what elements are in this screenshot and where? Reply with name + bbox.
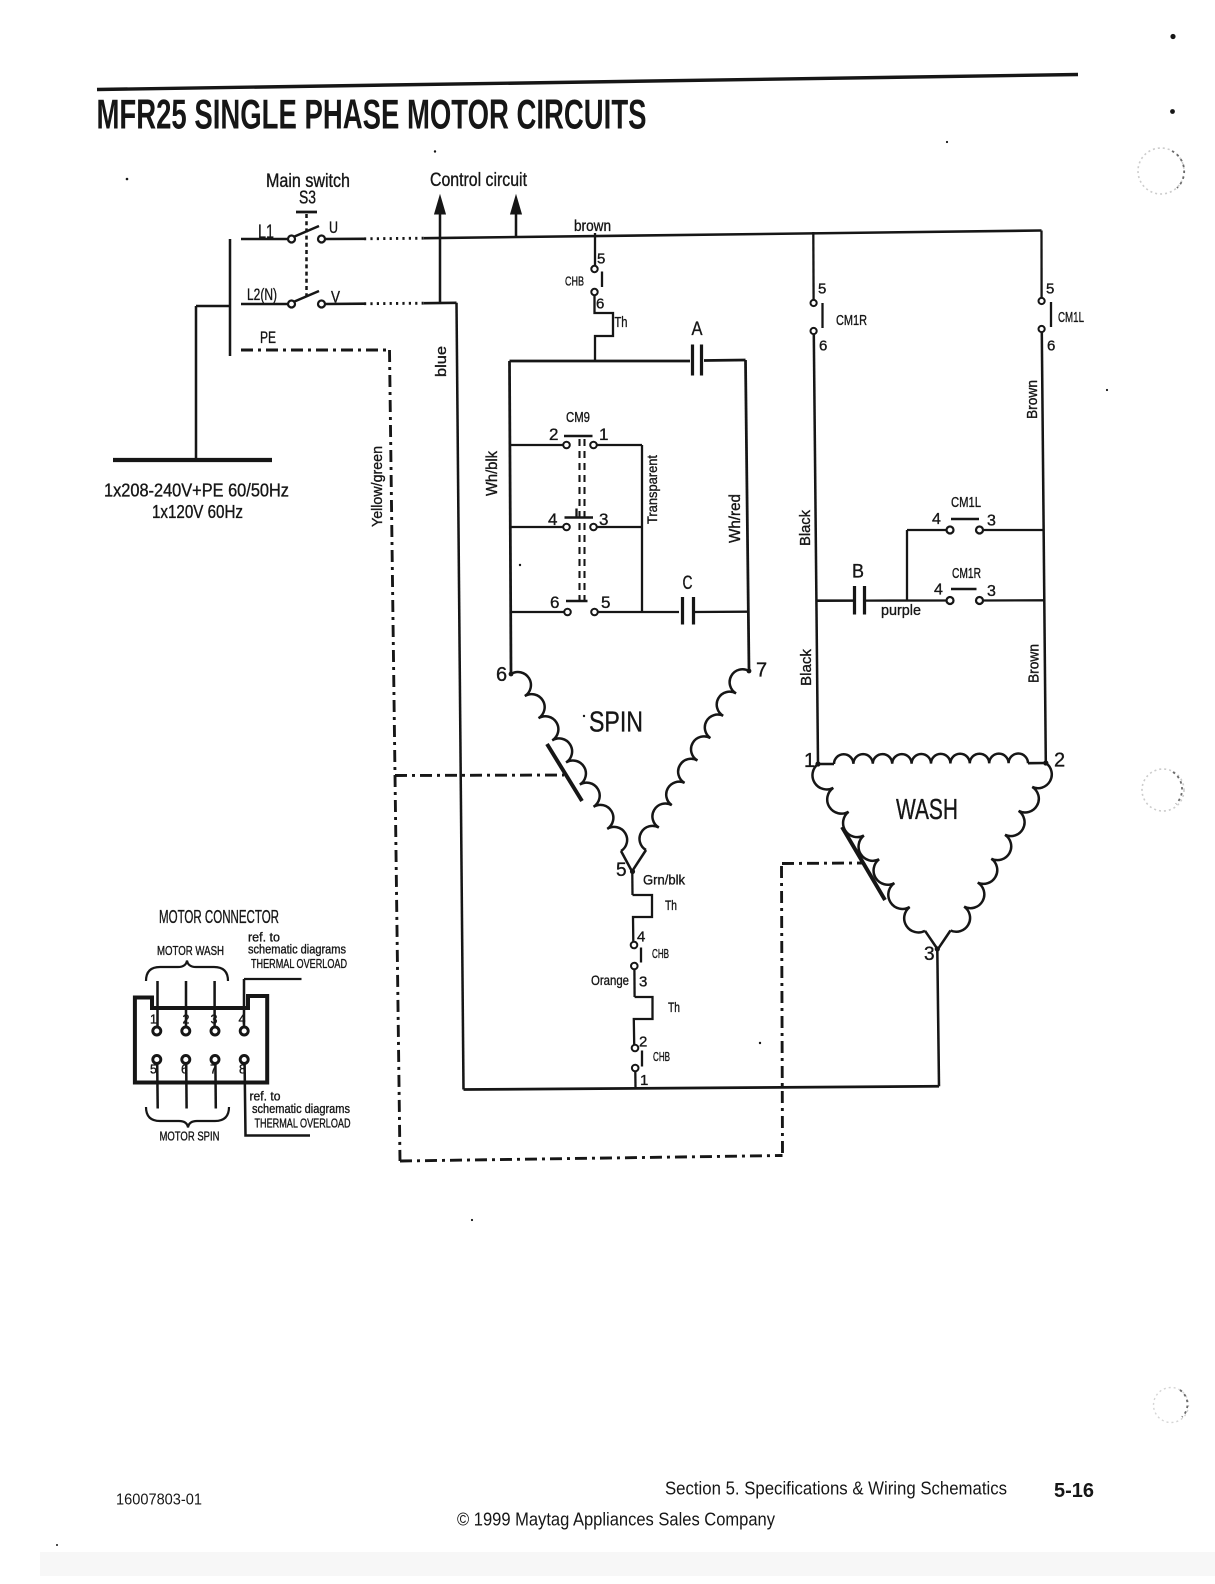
svg-text:CM9: CM9 xyxy=(566,409,590,426)
svg-text:schematic diagrams: schematic diagrams xyxy=(252,1101,350,1116)
svg-text:4: 4 xyxy=(637,929,645,946)
svg-text:brown: brown xyxy=(574,218,611,235)
svg-text:L2(N): L2(N) xyxy=(247,285,277,304)
svg-text:WASH: WASH xyxy=(896,794,958,826)
svg-text:4: 4 xyxy=(932,511,941,528)
svg-text:C: C xyxy=(683,573,693,594)
svg-text:THERMAL OVERLOAD: THERMAL OVERLOAD xyxy=(255,1117,351,1131)
svg-text:B: B xyxy=(852,562,864,583)
svg-text:Wh/red: Wh/red xyxy=(727,494,744,543)
svg-text:Wh/blk: Wh/blk xyxy=(484,451,501,496)
svg-text:A: A xyxy=(692,319,703,340)
svg-text:6: 6 xyxy=(496,664,507,686)
svg-text:3: 3 xyxy=(639,974,647,991)
svg-text:3: 3 xyxy=(987,513,996,530)
svg-text:5: 5 xyxy=(597,251,605,268)
svg-text:1: 1 xyxy=(804,750,815,772)
svg-text:CM1R: CM1R xyxy=(952,566,981,582)
svg-text:CM1R: CM1R xyxy=(836,312,867,329)
svg-text:4: 4 xyxy=(934,582,943,599)
svg-text:CM1L: CM1L xyxy=(1058,309,1084,326)
svg-text:Orange: Orange xyxy=(591,972,629,988)
svg-text:6: 6 xyxy=(596,296,604,313)
svg-text:Transparent: Transparent xyxy=(644,455,660,524)
svg-text:5: 5 xyxy=(601,593,610,612)
svg-text:1: 1 xyxy=(150,1013,157,1027)
svg-text:4: 4 xyxy=(239,1013,246,1027)
svg-text:Control circuit: Control circuit xyxy=(430,170,528,191)
svg-text:SPIN: SPIN xyxy=(589,707,643,739)
svg-text:CHB: CHB xyxy=(565,274,584,289)
svg-text:CHB: CHB xyxy=(653,1049,670,1064)
svg-text:7: 7 xyxy=(756,660,767,682)
svg-text:Th: Th xyxy=(668,999,680,1015)
svg-text:PE: PE xyxy=(260,328,276,347)
svg-text:2: 2 xyxy=(183,1013,190,1027)
svg-text:2: 2 xyxy=(639,1034,647,1051)
svg-text:MOTOR WASH: MOTOR WASH xyxy=(157,943,224,958)
svg-text:1: 1 xyxy=(640,1072,648,1089)
svg-text:1x208-240V+PE 60/50Hz: 1x208-240V+PE 60/50Hz xyxy=(104,481,289,501)
svg-text:5: 5 xyxy=(1046,281,1054,298)
svg-text:S3: S3 xyxy=(299,188,316,208)
svg-text:3: 3 xyxy=(599,510,608,529)
svg-text:16007803-01: 16007803-01 xyxy=(116,1492,202,1509)
svg-text:1: 1 xyxy=(599,425,608,444)
svg-text:1x120V 60Hz: 1x120V 60Hz xyxy=(152,502,243,522)
svg-text:6: 6 xyxy=(1047,338,1055,355)
svg-text:3: 3 xyxy=(987,583,996,600)
svg-text:Black: Black xyxy=(797,510,814,546)
svg-text:6: 6 xyxy=(550,593,559,612)
svg-text:3: 3 xyxy=(924,944,935,965)
svg-text:schematic diagrams: schematic diagrams xyxy=(248,942,346,957)
svg-text:6: 6 xyxy=(819,338,827,355)
svg-text:U: U xyxy=(329,218,338,237)
svg-text:CHB: CHB xyxy=(652,946,669,961)
svg-text:5: 5 xyxy=(616,860,627,881)
svg-text:Th: Th xyxy=(615,314,628,331)
svg-text:4: 4 xyxy=(548,510,557,529)
svg-text:Grn/blk: Grn/blk xyxy=(643,872,686,888)
svg-text:CM1L: CM1L xyxy=(951,495,981,511)
svg-text:Section 5. Specifications & W: Section 5. Specifications & Wiring Schem… xyxy=(665,1479,1007,1499)
svg-text:Brown: Brown xyxy=(1026,644,1043,683)
svg-text:THERMAL OVERLOAD: THERMAL OVERLOAD xyxy=(251,957,347,971)
svg-text:Black: Black xyxy=(798,649,815,686)
svg-text:5-16: 5-16 xyxy=(1054,1479,1094,1502)
svg-text:Th: Th xyxy=(665,897,677,913)
svg-text:MFR25 SINGLE PHASE MOTOR CIRCU: MFR25 SINGLE PHASE MOTOR CIRCUITS xyxy=(97,91,647,138)
svg-text:Yellow/green: Yellow/green xyxy=(370,446,386,527)
svg-text:2: 2 xyxy=(1054,750,1065,772)
svg-text:2: 2 xyxy=(549,425,558,444)
svg-text:MOTOR SPIN: MOTOR SPIN xyxy=(160,1129,220,1144)
svg-text:MOTOR CONNECTOR: MOTOR CONNECTOR xyxy=(159,907,279,927)
svg-text:3: 3 xyxy=(211,1013,218,1027)
svg-text:purple: purple xyxy=(881,602,921,619)
svg-text:Brown: Brown xyxy=(1024,380,1041,419)
svg-text:5: 5 xyxy=(818,281,826,298)
svg-text:© 1999 Maytag Appliances Sales: © 1999 Maytag Appliances Sales Company xyxy=(457,1510,775,1530)
svg-text:blue: blue xyxy=(433,346,450,377)
